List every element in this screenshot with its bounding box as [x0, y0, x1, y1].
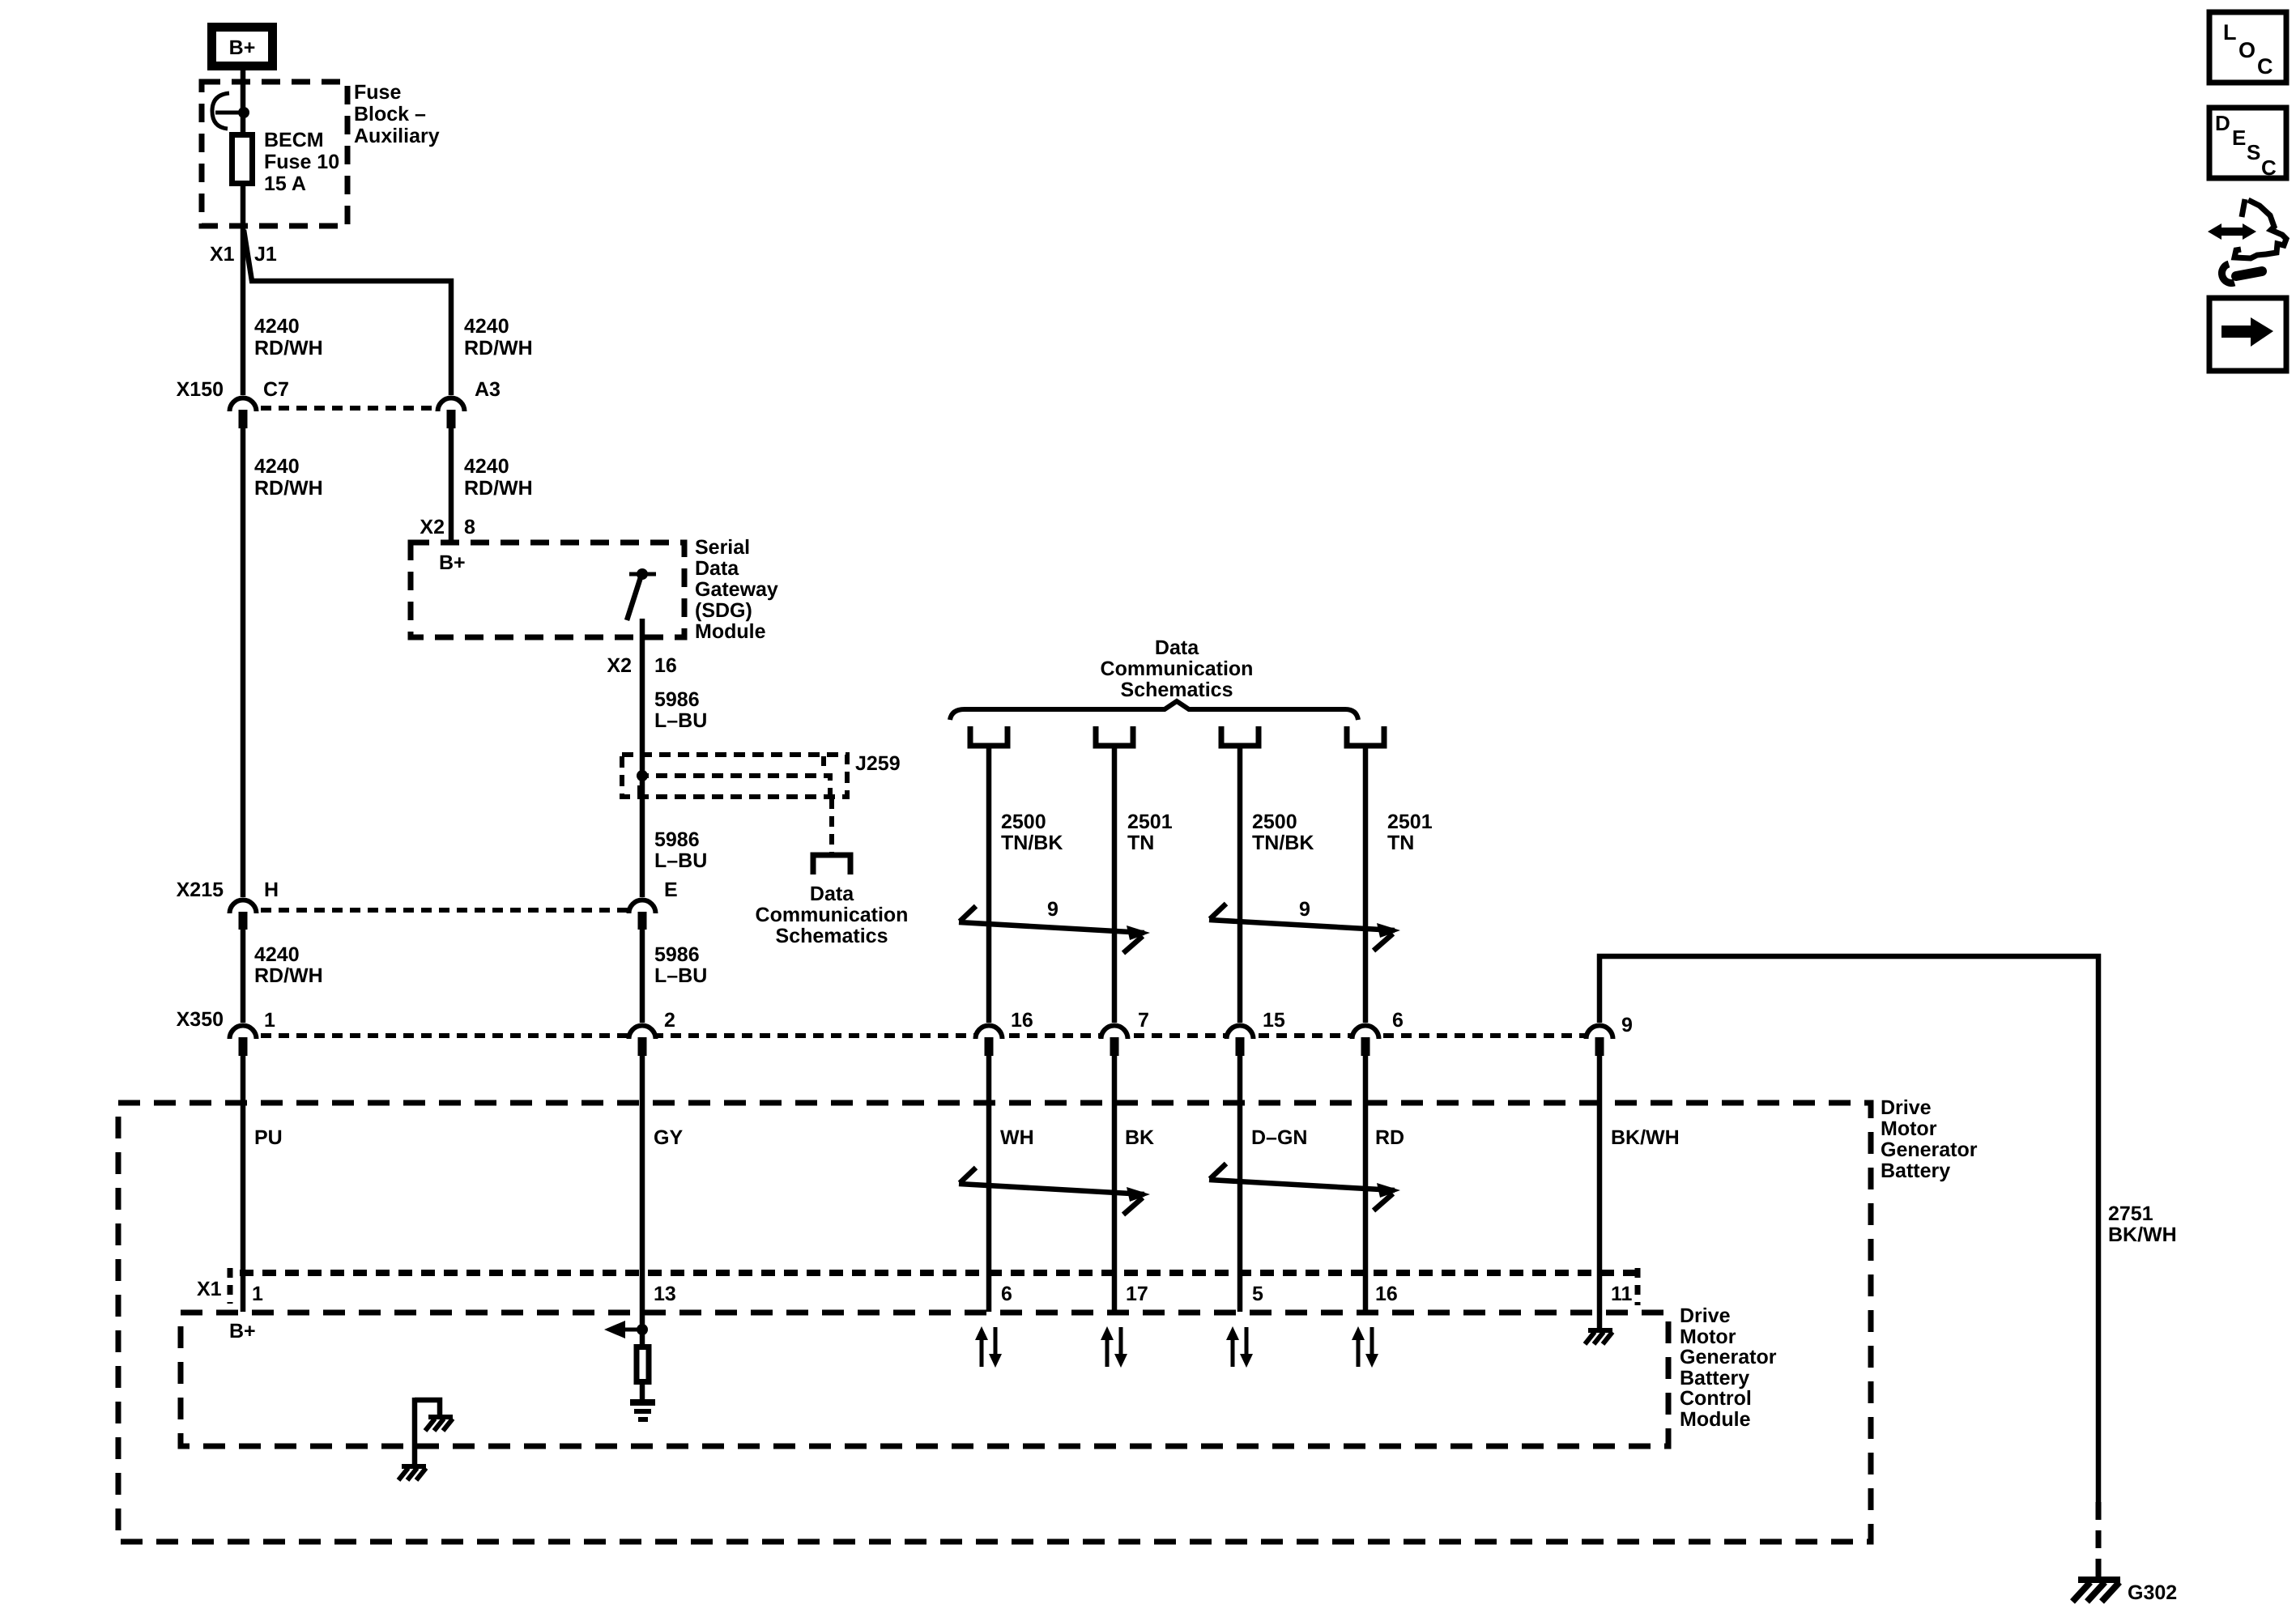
svg-text:2: 2 — [664, 1009, 675, 1032]
wire data3 to module pin5 — [1237, 1055, 1243, 1312]
svg-text:Schematics: Schematics — [776, 925, 888, 947]
svg-text:GY: GY — [654, 1126, 683, 1149]
label Data Communication Schematics (top title) — [1101, 636, 1254, 701]
wire C7 down to X215 H — [241, 428, 246, 897]
off-page connector bracket (wire 2) — [1096, 726, 1133, 746]
svg-text:4240: 4240 — [254, 455, 300, 478]
icon wrench — [2221, 264, 2262, 283]
ground earth symbol below resistor — [630, 1402, 655, 1419]
battery pack label — [1881, 1096, 1978, 1182]
ground G302 chassis symbol — [2072, 1580, 2120, 1602]
svg-text:L–BU: L–BU — [654, 709, 707, 732]
svg-text:Data: Data — [810, 883, 854, 905]
svg-text:BK/WH: BK/WH — [2108, 1223, 2177, 1246]
svg-text:E: E — [2232, 126, 2246, 150]
wire label 4240 RD/WH (left, above X150) — [254, 315, 323, 360]
fuse block label — [354, 81, 440, 147]
battery pack outer dashed box — [118, 1103, 1871, 1542]
icon hand with double arrow — [2208, 199, 2286, 258]
svg-text:H: H — [264, 879, 279, 901]
wire data4 bracket to X350 pin6 — [1363, 747, 1369, 1023]
icon LOC box — [2209, 12, 2286, 83]
svg-text:WH: WH — [1000, 1126, 1034, 1149]
wire label 2500 TN/BK (wire 1) — [1001, 811, 1063, 854]
wire data4 to module pin16 — [1363, 1055, 1369, 1312]
svg-text:Battery: Battery — [1881, 1160, 1950, 1182]
wire label 4240 RD/WH (left, below X150) — [254, 455, 323, 500]
svg-text:11: 11 — [1611, 1283, 1633, 1305]
ground chassis symbol at module pin 11 — [1585, 1312, 1612, 1344]
svg-text:Data: Data — [695, 557, 739, 580]
svg-text:X215: X215 — [177, 879, 224, 901]
wire J259 down to X215 E — [640, 776, 645, 897]
svg-text:9: 9 — [1299, 898, 1310, 921]
svg-text:TN/BK: TN/BK — [1001, 832, 1063, 854]
svg-text:16: 16 — [1375, 1283, 1398, 1305]
brace over data wires — [950, 701, 1358, 720]
connector X150 pin C7 — [230, 378, 289, 428]
svg-text:4240: 4240 — [254, 315, 300, 338]
switch inside SDG module — [627, 568, 656, 620]
connector row X150 dashed line — [243, 406, 451, 411]
svg-text:C: C — [2257, 54, 2273, 79]
svg-text:J259: J259 — [855, 752, 901, 775]
connector X350 pin 6 — [1352, 1009, 1404, 1056]
svg-text:J1: J1 — [254, 243, 277, 266]
wire pin2 to module pin13 — [640, 1055, 645, 1332]
svg-text:B+: B+ — [229, 1320, 256, 1343]
svg-text:5: 5 — [1252, 1283, 1263, 1305]
svg-text:16: 16 — [1011, 1009, 1033, 1032]
svg-text:2501: 2501 — [1127, 811, 1173, 833]
control module dashed box — [181, 1313, 1668, 1446]
svg-text:RD/WH: RD/WH — [464, 477, 533, 500]
wire data2 bracket to X350 pin7 — [1112, 747, 1118, 1023]
svg-text:2501: 2501 — [1387, 811, 1433, 833]
svg-text:X350: X350 — [177, 1008, 224, 1031]
svg-text:TN/BK: TN/BK — [1252, 832, 1314, 854]
svg-text:C7: C7 — [263, 378, 289, 401]
wire branch J1 to A3 — [244, 230, 451, 395]
wire dashed 2751 to G302 — [2096, 1502, 2102, 1577]
wire BK/WH corner from X350 pin9 to right edge — [1600, 956, 2098, 1502]
wire A3 down to SDG X2-8 — [449, 428, 454, 544]
svg-text:6: 6 — [1001, 1283, 1012, 1305]
svg-text:2500: 2500 — [1001, 811, 1046, 833]
svg-text:Drive: Drive — [1881, 1096, 1932, 1119]
SDG module label — [695, 536, 778, 643]
svg-text:Gateway: Gateway — [695, 578, 778, 601]
svg-text:15: 15 — [1263, 1009, 1285, 1032]
connector X350 pin 2 — [629, 1009, 675, 1056]
node splice dot on wire — [637, 770, 648, 781]
svg-text:X1: X1 — [197, 1278, 222, 1300]
svg-text:E: E — [664, 879, 678, 901]
svg-text:5986: 5986 — [654, 688, 700, 711]
svg-text:C: C — [2261, 155, 2277, 180]
ground chassis symbol below module — [398, 1466, 426, 1480]
svg-text:PU: PU — [254, 1126, 283, 1149]
svg-text:RD: RD — [1375, 1126, 1404, 1149]
off-page connector bracket (wire 1) — [970, 726, 1007, 746]
svg-text:Communication: Communication — [756, 904, 909, 926]
svg-text:6: 6 — [1392, 1009, 1404, 1032]
label X2 pin 16 — [607, 654, 676, 677]
fuse BECM Fuse 10 15A — [232, 135, 253, 184]
svg-text:2500: 2500 — [1252, 811, 1297, 833]
wire label 5986 L-BU (below X215) — [654, 943, 707, 987]
resistor inside module pin13 — [637, 1330, 649, 1401]
svg-text:8: 8 — [464, 516, 475, 538]
bidirectional arrows module pin 17 — [1101, 1326, 1127, 1368]
svg-text:Data: Data — [1155, 636, 1199, 659]
wire B+ to fuse — [241, 68, 246, 132]
svg-text:RD/WH: RD/WH — [254, 964, 323, 987]
svg-text:17: 17 — [1126, 1283, 1148, 1305]
svg-text:13: 13 — [654, 1283, 676, 1305]
svg-text:Block –: Block – — [354, 103, 426, 126]
svg-text:D: D — [2215, 111, 2230, 135]
ground branch inside module — [415, 1398, 440, 1466]
connector X350 pin 9 — [1587, 1014, 1633, 1056]
off-page connector symbol below J259 — [813, 855, 850, 874]
off-page connector bracket (wire 3) — [1221, 726, 1259, 746]
svg-text:RD/WH: RD/WH — [254, 337, 323, 360]
wire label 4240 RD/WH (right, below X150) — [464, 455, 533, 500]
svg-text:Control: Control — [1680, 1387, 1752, 1410]
svg-text:L–BU: L–BU — [654, 849, 707, 872]
connector X215 pin E — [629, 879, 678, 930]
connector X215 pin H — [230, 879, 279, 930]
node arrow at module pin 13 — [604, 1321, 648, 1338]
svg-text:Battery: Battery — [1680, 1367, 1749, 1389]
svg-text:4240: 4240 — [254, 943, 300, 966]
wire data1 bracket to X350 pin16 — [986, 747, 992, 1023]
svg-text:O: O — [2238, 38, 2256, 62]
connector row X1 dotted line — [230, 1268, 1638, 1305]
svg-text:X1: X1 — [210, 243, 235, 266]
svg-text:Fuse 10: Fuse 10 — [264, 151, 339, 173]
connector row X215 dashed line — [243, 908, 642, 913]
battery feed B+ terminal box — [212, 28, 273, 66]
svg-text:9: 9 — [1047, 898, 1059, 921]
svg-text:7: 7 — [1138, 1009, 1149, 1032]
svg-text:Module: Module — [1680, 1408, 1751, 1431]
svg-text:Drive: Drive — [1680, 1304, 1731, 1327]
bidirectional arrows module pin 5 — [1226, 1326, 1253, 1368]
fuse value label — [264, 129, 339, 195]
svg-text:B+: B+ — [229, 36, 256, 59]
icon arrow box — [2209, 298, 2286, 371]
svg-text:Motor: Motor — [1881, 1117, 1937, 1140]
wire data3 bracket to X350 pin15 — [1237, 747, 1243, 1023]
wire label 2501 TN (wire 4) — [1387, 811, 1433, 854]
svg-text:Communication: Communication — [1101, 657, 1254, 680]
svg-text:X150: X150 — [177, 378, 224, 401]
wire dashed leader J259 to off-page symbol — [829, 798, 834, 853]
svg-text:TN: TN — [1127, 832, 1154, 854]
wire fuse to X150 C7 — [241, 184, 246, 395]
wire label 4240 RD/WH (below X215) — [254, 943, 323, 987]
svg-text:5986: 5986 — [654, 828, 700, 851]
SDG module dashed box — [411, 543, 684, 637]
wire E down to X350 pin2 — [640, 930, 645, 1023]
svg-text:4240: 4240 — [464, 315, 509, 338]
wire data1 to module pin6 — [986, 1055, 992, 1312]
wire label 2500 TN/BK (wire 3) — [1252, 811, 1314, 854]
svg-text:L: L — [2223, 20, 2237, 45]
svg-text:2751: 2751 — [2108, 1202, 2153, 1225]
wire pin9 to module pin11 — [1597, 1055, 1603, 1312]
connector X350 pin 7 — [1101, 1009, 1149, 1056]
svg-text:5986: 5986 — [654, 943, 700, 966]
icon DESC box — [2209, 108, 2286, 180]
twisted pair marker upper-left with label 9 — [959, 906, 1150, 953]
label X2 pin 8 — [420, 516, 475, 538]
wire label 4240 RD/WH (right, above X150) — [464, 315, 533, 360]
svg-text:D–GN: D–GN — [1251, 1126, 1307, 1149]
twisted pair marker lower-right — [1209, 1164, 1400, 1211]
bidirectional arrows module pin 6 — [975, 1326, 1002, 1368]
svg-text:BK: BK — [1125, 1126, 1154, 1149]
svg-text:16: 16 — [654, 654, 677, 677]
ground chassis symbol inside module — [425, 1417, 453, 1431]
svg-text:X2: X2 — [420, 516, 445, 538]
svg-text:(SDG): (SDG) — [695, 599, 752, 622]
connector row X350 dashed line — [243, 1033, 1600, 1038]
svg-text:RD/WH: RD/WH — [464, 337, 533, 360]
svg-text:9: 9 — [1621, 1014, 1633, 1036]
svg-text:G302: G302 — [2128, 1581, 2177, 1604]
wire label 5986 L-BU (above J259) — [654, 688, 707, 732]
svg-text:BK/WH: BK/WH — [1611, 1126, 1680, 1149]
svg-text:4240: 4240 — [464, 455, 509, 478]
svg-text:A3: A3 — [475, 378, 501, 401]
connector X150 pin A3 — [438, 378, 501, 428]
svg-text:B+: B+ — [439, 551, 466, 574]
connector X350 pin 1 — [230, 1009, 276, 1056]
svg-text:Auxiliary: Auxiliary — [354, 125, 440, 147]
svg-text:1: 1 — [264, 1009, 275, 1032]
label X1 J1 — [210, 243, 277, 266]
off-page connector bracket (wire 4) — [1347, 726, 1384, 746]
svg-text:TN: TN — [1387, 832, 1414, 854]
svg-text:15 A: 15 A — [264, 172, 306, 195]
fuse holder clip symbol — [212, 93, 249, 129]
wire pin1 to module X1-1 — [241, 1055, 246, 1312]
svg-text:RD/WH: RD/WH — [254, 477, 323, 500]
label Data Communication Schematics (J259 leader) — [756, 883, 909, 947]
svg-text:Serial: Serial — [695, 536, 750, 559]
fuse block auxiliary dashed box — [202, 82, 347, 226]
bidirectional arrows module pin 16 — [1352, 1326, 1378, 1368]
svg-text:Module: Module — [695, 620, 766, 643]
wire SDG X2-16 down to J259 — [640, 619, 645, 776]
svg-text:Generator: Generator — [1881, 1138, 1978, 1161]
twisted pair marker upper-right with label 9 — [1209, 904, 1400, 951]
wire label 2751 BK/WH — [2108, 1202, 2177, 1246]
wire label 5986 L-BU (above X215 E) — [654, 828, 707, 872]
connector X350 pin 15 — [1227, 1009, 1285, 1056]
wire label 2501 TN (wire 2) — [1127, 811, 1173, 854]
svg-text:Fuse: Fuse — [354, 81, 401, 104]
control module label — [1680, 1304, 1777, 1431]
wire H down to X350 pin1 — [241, 930, 246, 1023]
svg-text:1: 1 — [252, 1283, 263, 1305]
svg-text:Generator: Generator — [1680, 1346, 1777, 1368]
svg-text:BECM: BECM — [264, 129, 324, 151]
svg-text:Motor: Motor — [1680, 1326, 1736, 1348]
svg-text:S: S — [2247, 140, 2260, 164]
connector X350 pin 16 — [976, 1009, 1033, 1056]
twisted pair marker lower-left — [959, 1168, 1150, 1215]
splice J259 dashed boxes — [622, 755, 847, 797]
svg-text:L–BU: L–BU — [654, 964, 707, 987]
svg-text:X2: X2 — [607, 654, 632, 677]
svg-text:Schematics: Schematics — [1121, 679, 1233, 701]
wire data2 to module pin17 — [1112, 1055, 1118, 1312]
